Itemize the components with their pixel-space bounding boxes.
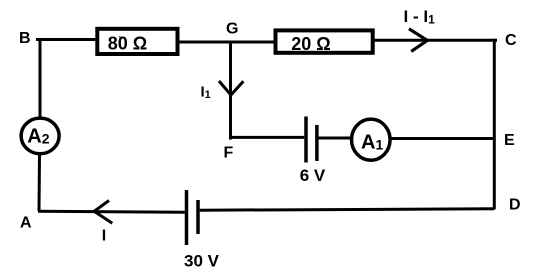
wire battery 30V to D [200,209,495,210]
svg-text:20 Ω: 20 Ω [291,34,330,54]
svg-text:G: G [226,21,238,38]
svg-text:E: E [504,132,515,149]
svg-text:F: F [224,145,234,162]
battery 6V long plate [304,117,308,163]
battery 30V long plate [185,190,189,245]
resistor R2 box [276,30,373,52]
svg-text:C: C [505,32,517,49]
wire A to battery 30V [38,211,185,212]
svg-text:30 V: 30 V [184,252,220,271]
svg-text:I: I [102,228,106,245]
wire battery 6V to A1 [319,137,353,140]
wire R2 to C [373,39,497,42]
battery 30V short plate [196,200,200,234]
current arrow I [94,201,112,224]
wire G to F [229,42,232,140]
wire A1 to E [391,137,496,140]
ammeter A2 circle [21,118,59,154]
wire C to D right side [493,39,496,210]
wire B to A2 [39,39,42,118]
current arrow I minus I1 [409,29,427,52]
resistor R1 box [97,29,177,54]
battery 6V short plate [315,125,319,161]
current arrow I1 [219,81,243,95]
wire B to R1 [36,38,97,41]
wire R1 to G to R2 [179,41,275,44]
svg-text:B: B [19,30,31,47]
wire F to battery 6V [230,136,305,139]
wire A2 to A [38,155,42,212]
svg-text:6 V: 6 V [300,166,326,185]
svg-text:80 Ω: 80 Ω [108,33,147,53]
ammeter A1 circle [352,119,391,160]
svg-text:A: A [20,215,32,232]
svg-text:D: D [509,197,521,214]
